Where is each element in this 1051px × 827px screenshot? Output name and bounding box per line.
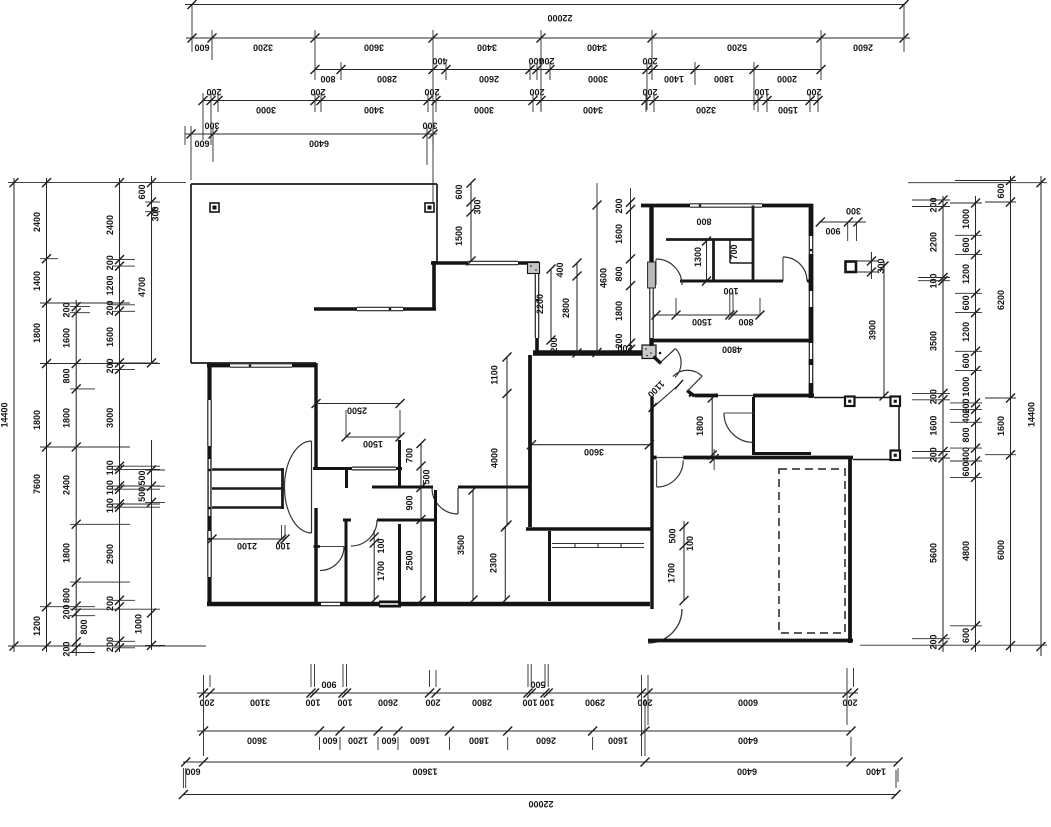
svg-text:100: 100 bbox=[376, 538, 386, 553]
wall left wing north bbox=[207, 364, 316, 367]
garage east wall bbox=[848, 458, 852, 644]
svg-text:400: 400 bbox=[432, 56, 447, 66]
svg-text:100: 100 bbox=[305, 698, 320, 708]
svg-text:1600: 1600 bbox=[614, 224, 624, 244]
dim 100/1700 room A bbox=[370, 530, 386, 605]
svg-text:700: 700 bbox=[729, 244, 739, 259]
dim row bottom B2 bbox=[197, 727, 856, 746]
svg-text:4800: 4800 bbox=[722, 345, 742, 355]
svg-text:1500: 1500 bbox=[454, 226, 464, 246]
vestibule east wall bbox=[752, 397, 755, 455]
svg-text:2600: 2600 bbox=[378, 698, 398, 708]
svg-text:6000: 6000 bbox=[996, 540, 1006, 560]
svg-text:100: 100 bbox=[522, 698, 537, 708]
svg-text:200: 200 bbox=[929, 634, 939, 649]
dim 3900 east bbox=[868, 261, 889, 401]
svg-text:2600: 2600 bbox=[536, 736, 556, 746]
porch column c bbox=[891, 451, 901, 461]
dim row bottom B4 total 22000 bbox=[179, 790, 901, 809]
hall south wall east bbox=[753, 394, 814, 398]
svg-text:6000: 6000 bbox=[738, 698, 758, 708]
svg-text:800: 800 bbox=[961, 427, 971, 442]
svg-text:2400: 2400 bbox=[105, 215, 115, 235]
svg-text:100: 100 bbox=[539, 698, 554, 708]
svg-text:100: 100 bbox=[105, 498, 115, 513]
dim col left L2 bbox=[32, 178, 51, 652]
svg-text:1400: 1400 bbox=[866, 767, 886, 777]
svg-text:1000: 1000 bbox=[961, 377, 971, 397]
svg-text:700: 700 bbox=[405, 448, 415, 463]
svg-text:1200: 1200 bbox=[348, 736, 368, 746]
svg-text:1500: 1500 bbox=[692, 317, 712, 327]
svg-text:2200: 2200 bbox=[535, 294, 545, 314]
svg-text:100: 100 bbox=[337, 698, 352, 708]
entry door arc east bbox=[673, 370, 702, 376]
svg-text:1600: 1600 bbox=[410, 736, 430, 746]
svg-text:400: 400 bbox=[961, 447, 971, 462]
dim 1800 vestibule bbox=[695, 394, 717, 460]
svg-text:600: 600 bbox=[454, 184, 464, 199]
svg-text:600: 600 bbox=[185, 767, 200, 777]
car space dashed bbox=[779, 469, 845, 633]
svg-text:2100: 2100 bbox=[237, 541, 257, 551]
wall central x316 upper bbox=[314, 363, 317, 469]
porch column b bbox=[891, 397, 901, 407]
wall x399 bbox=[398, 524, 401, 604]
svg-text:3400: 3400 bbox=[583, 105, 603, 115]
garage door arc west bbox=[648, 609, 682, 643]
svg-text:1000: 1000 bbox=[134, 614, 144, 634]
NE room door2 arc bbox=[783, 257, 807, 281]
svg-text:3600: 3600 bbox=[247, 736, 267, 746]
corridor room door leaf bbox=[457, 488, 459, 514]
svg-text:200: 200 bbox=[929, 389, 939, 404]
svg-text:200: 200 bbox=[549, 337, 559, 352]
svg-text:1800: 1800 bbox=[714, 74, 734, 84]
dim row bottom B1 bbox=[197, 680, 858, 708]
svg-text:2500: 2500 bbox=[405, 550, 415, 570]
svg-text:800: 800 bbox=[62, 588, 72, 603]
svg-text:600: 600 bbox=[322, 736, 337, 746]
svg-text:1800: 1800 bbox=[62, 543, 72, 563]
svg-text:300: 300 bbox=[846, 206, 861, 216]
svg-text:200: 200 bbox=[105, 358, 115, 373]
NE wing north wall bbox=[641, 204, 813, 207]
wall x346 bbox=[345, 519, 348, 605]
svg-text:2800: 2800 bbox=[472, 698, 492, 708]
dim col left L5 lower bbox=[79, 440, 156, 650]
NE wing west wall upper bbox=[649, 204, 653, 263]
dim col left L5 upper bbox=[137, 176, 161, 367]
svg-text:400: 400 bbox=[555, 262, 565, 277]
svg-text:5200: 5200 bbox=[727, 43, 747, 53]
svg-text:200: 200 bbox=[642, 87, 657, 97]
dim 300 porch column bbox=[855, 252, 886, 279]
svg-text:3400: 3400 bbox=[587, 43, 607, 53]
wall dark y353 bbox=[533, 350, 648, 355]
svg-text:1800: 1800 bbox=[62, 408, 72, 428]
entry corner block bbox=[642, 345, 656, 359]
porch column a bbox=[845, 397, 855, 407]
dim 2800 kitchen bbox=[555, 259, 582, 358]
svg-text:3000: 3000 bbox=[588, 74, 608, 84]
closet wall end bbox=[281, 468, 284, 509]
svg-text:7600: 7600 bbox=[32, 474, 42, 494]
terrace column left bbox=[210, 203, 219, 212]
wall kitchen x434 bbox=[432, 261, 436, 311]
dim 1100/4000 center bbox=[490, 353, 512, 530]
svg-text:1500: 1500 bbox=[363, 439, 383, 449]
svg-text:200: 200 bbox=[424, 87, 439, 97]
dim 2200 kitchen bbox=[535, 265, 556, 345]
svg-text:200: 200 bbox=[529, 87, 544, 97]
svg-text:200: 200 bbox=[539, 56, 554, 66]
extension lines bottom block bbox=[183, 664, 898, 788]
wall exterior south bbox=[207, 602, 650, 605]
courtyard corner block bbox=[528, 263, 540, 274]
door threshold south bbox=[379, 601, 401, 608]
svg-text:800: 800 bbox=[696, 217, 711, 227]
svg-text:1800: 1800 bbox=[32, 323, 42, 343]
svg-text:2800: 2800 bbox=[377, 74, 397, 84]
dim col right R3 bbox=[996, 176, 1015, 652]
NE shaft bbox=[730, 240, 752, 263]
svg-text:800: 800 bbox=[614, 266, 624, 281]
wall bedroom x549 bbox=[548, 531, 551, 601]
dim 1100 diagonal line bbox=[649, 380, 683, 412]
dim 2500 kitchen h bbox=[312, 399, 405, 416]
svg-text:100: 100 bbox=[105, 460, 115, 475]
extension lines left block bbox=[8, 183, 206, 653]
svg-text:200: 200 bbox=[806, 87, 821, 97]
wc stub wall bbox=[345, 468, 348, 488]
svg-text:200: 200 bbox=[206, 87, 221, 97]
svg-text:100: 100 bbox=[723, 286, 738, 296]
svg-text:1800: 1800 bbox=[695, 416, 705, 436]
svg-text:4000: 4000 bbox=[490, 448, 500, 468]
wall x435 bbox=[434, 490, 437, 604]
svg-text:13600: 13600 bbox=[412, 767, 437, 777]
door arc room B bbox=[320, 547, 344, 571]
hall south door sill bbox=[718, 395, 753, 397]
svg-text:600: 600 bbox=[961, 461, 971, 476]
wall living west bbox=[528, 355, 532, 527]
svg-text:1600: 1600 bbox=[62, 328, 72, 348]
svg-text:200: 200 bbox=[62, 641, 72, 656]
svg-text:3200: 3200 bbox=[253, 43, 273, 53]
svg-text:1200: 1200 bbox=[961, 264, 971, 284]
garage south wall bbox=[648, 639, 853, 643]
porch south edge bbox=[853, 459, 899, 461]
dim 4600 courtyard bbox=[593, 183, 631, 357]
dim 900/300 NE corner horizontal bbox=[816, 206, 866, 241]
svg-text:300: 300 bbox=[204, 121, 219, 131]
svg-text:1400: 1400 bbox=[664, 74, 684, 84]
dim col left L1 total 14400 bbox=[0, 178, 19, 652]
svg-text:600: 600 bbox=[961, 295, 971, 310]
svg-text:3600: 3600 bbox=[364, 43, 384, 53]
dim 700/500/900/2500 room B bbox=[405, 439, 432, 605]
vestibule south wall bbox=[754, 452, 812, 455]
wall y546 stub bbox=[314, 545, 321, 548]
entry jamb diagonal bbox=[654, 357, 662, 364]
NE wing south wall (hall north) bbox=[652, 339, 812, 343]
garage north wall bbox=[652, 456, 853, 460]
svg-text:3600: 3600 bbox=[584, 447, 604, 457]
svg-text:5600: 5600 bbox=[929, 543, 939, 563]
bathroom wall east bbox=[398, 440, 401, 488]
svg-text:3000: 3000 bbox=[256, 105, 276, 115]
porch east edge bbox=[898, 398, 900, 460]
court column bbox=[846, 262, 857, 273]
svg-text:500: 500 bbox=[530, 680, 545, 690]
entry door leaf west bbox=[660, 349, 675, 363]
NE partition x713 bbox=[712, 240, 715, 282]
dim col right R1 bbox=[929, 196, 948, 653]
garage north door arc bbox=[657, 460, 684, 487]
closet wall bottom bbox=[212, 506, 284, 508]
dim row top T2 bbox=[186, 34, 910, 53]
dim 200 pair labels bbox=[549, 337, 633, 353]
svg-text:1200: 1200 bbox=[32, 616, 42, 636]
NE partition x753 bbox=[752, 206, 755, 282]
svg-text:400: 400 bbox=[961, 408, 971, 423]
wall junction dots bbox=[208, 204, 851, 642]
svg-text:600: 600 bbox=[381, 736, 396, 746]
svg-text:600: 600 bbox=[137, 184, 147, 199]
hall door leaf bbox=[311, 441, 313, 533]
terrace column right bbox=[425, 203, 434, 212]
svg-text:1200: 1200 bbox=[105, 275, 115, 295]
svg-text:200: 200 bbox=[105, 637, 115, 652]
svg-text:1600: 1600 bbox=[105, 327, 115, 347]
wall y520 west stub bbox=[343, 519, 351, 522]
corridor room door arc bbox=[432, 488, 458, 514]
svg-text:3400: 3400 bbox=[364, 105, 384, 115]
svg-text:3900: 3900 bbox=[868, 320, 878, 340]
svg-text:4700: 4700 bbox=[137, 277, 147, 297]
svg-text:800: 800 bbox=[79, 619, 89, 634]
svg-text:3000: 3000 bbox=[474, 105, 494, 115]
svg-text:900: 900 bbox=[825, 226, 840, 236]
svg-text:1300: 1300 bbox=[693, 247, 703, 267]
NE wing west stipple block bbox=[648, 262, 656, 288]
wall y487 east part bbox=[458, 486, 531, 489]
svg-text:600: 600 bbox=[194, 43, 209, 53]
svg-text:2200: 2200 bbox=[929, 232, 939, 252]
garage west wall bbox=[650, 397, 653, 609]
svg-text:200: 200 bbox=[425, 698, 440, 708]
NE wing east wall bbox=[809, 204, 812, 398]
dim 3600 living h bbox=[527, 440, 654, 457]
svg-text:6400: 6400 bbox=[738, 736, 758, 746]
svg-text:4600: 4600 bbox=[599, 268, 609, 288]
wall kitchen north y263 bbox=[431, 261, 539, 264]
svg-text:200: 200 bbox=[614, 198, 624, 213]
svg-text:900: 900 bbox=[321, 680, 336, 690]
svg-text:6400: 6400 bbox=[309, 139, 329, 149]
svg-text:200: 200 bbox=[842, 698, 857, 708]
svg-text:1200: 1200 bbox=[961, 322, 971, 342]
extension lines right block bbox=[860, 181, 1047, 646]
svg-text:2600: 2600 bbox=[479, 74, 499, 84]
svg-text:2900: 2900 bbox=[105, 544, 115, 564]
svg-text:1000: 1000 bbox=[961, 209, 971, 229]
svg-text:900: 900 bbox=[405, 495, 415, 510]
svg-text:800: 800 bbox=[738, 317, 753, 327]
entry door leaf east bbox=[688, 376, 703, 391]
svg-text:3200: 3200 bbox=[696, 105, 716, 115]
svg-text:1600: 1600 bbox=[608, 736, 628, 746]
svg-text:100: 100 bbox=[105, 480, 115, 495]
wall kitchen y309 bbox=[314, 307, 436, 310]
svg-text:3100: 3100 bbox=[250, 698, 270, 708]
NE partition shelf y239 bbox=[666, 238, 752, 241]
svg-text:14400: 14400 bbox=[1027, 402, 1037, 427]
svg-text:300: 300 bbox=[422, 121, 437, 131]
dim 1300 line bbox=[702, 237, 711, 286]
vestibule door arc bbox=[724, 413, 754, 443]
svg-text:200: 200 bbox=[310, 87, 325, 97]
svg-text:6200: 6200 bbox=[996, 290, 1006, 310]
svg-text:22000: 22000 bbox=[547, 13, 572, 23]
NE room door1 arc bbox=[656, 259, 682, 285]
svg-text:22000: 22000 bbox=[528, 799, 553, 809]
svg-text:4800: 4800 bbox=[961, 541, 971, 561]
dim 1500 kitchen h bbox=[342, 410, 405, 449]
wall y520 east part bbox=[377, 519, 437, 522]
svg-text:500: 500 bbox=[137, 470, 147, 485]
dim 2100/100 bedroom bbox=[208, 525, 291, 551]
svg-text:3500: 3500 bbox=[929, 331, 939, 351]
svg-text:200: 200 bbox=[642, 56, 657, 66]
wall living south y529 bbox=[526, 527, 652, 530]
svg-text:600: 600 bbox=[996, 183, 1006, 198]
dim ext x714 bbox=[710, 449, 719, 470]
svg-text:100: 100 bbox=[275, 541, 290, 551]
extension lines top block bbox=[185, 5, 904, 206]
dim col left L3 bbox=[62, 300, 81, 657]
svg-text:1400: 1400 bbox=[32, 271, 42, 291]
svg-text:1800: 1800 bbox=[32, 410, 42, 430]
svg-text:6400: 6400 bbox=[737, 767, 757, 777]
bathroom wall y468 bbox=[313, 467, 402, 470]
svg-text:600: 600 bbox=[194, 139, 209, 149]
svg-text:200: 200 bbox=[617, 343, 632, 353]
hall door arc large bbox=[285, 441, 312, 533]
svg-text:3400: 3400 bbox=[477, 43, 497, 53]
svg-text:3500: 3500 bbox=[456, 535, 466, 555]
svg-text:1700: 1700 bbox=[667, 563, 677, 583]
wall left wing west bbox=[208, 364, 211, 607]
dim 1500/800/100 NE rooms bbox=[652, 286, 765, 327]
NE rooms partition south y281 bbox=[680, 280, 811, 283]
svg-text:1600: 1600 bbox=[929, 416, 939, 436]
NE wing west block lower bbox=[649, 338, 653, 346]
svg-text:2500: 2500 bbox=[347, 406, 367, 416]
svg-text:600: 600 bbox=[961, 353, 971, 368]
dim col left L4 bbox=[105, 178, 124, 652]
door arc room A bbox=[351, 520, 377, 546]
svg-text:2400: 2400 bbox=[32, 212, 42, 232]
svg-text:2300: 2300 bbox=[489, 553, 499, 573]
dim row top T5 bbox=[185, 121, 438, 149]
dim column courtyard 200/1600/800/1800/200 bbox=[614, 198, 635, 354]
dim 500/100/1700 garage side bbox=[667, 521, 696, 605]
svg-text:800: 800 bbox=[320, 74, 335, 84]
NE wing west window bbox=[650, 288, 653, 338]
dim col right R2 bbox=[961, 196, 980, 652]
svg-text:14400: 14400 bbox=[0, 402, 10, 427]
dim 3500 corridor bbox=[456, 486, 478, 605]
svg-text:300: 300 bbox=[151, 206, 161, 221]
svg-text:1800: 1800 bbox=[614, 301, 624, 321]
closet wall middle bbox=[212, 487, 284, 489]
svg-text:2900: 2900 bbox=[585, 698, 605, 708]
entry jog diagonal bbox=[687, 391, 695, 397]
svg-text:2800: 2800 bbox=[561, 298, 571, 318]
wall courtyard west x537 bbox=[535, 262, 538, 355]
dim row top T1 total 22000 bbox=[185, 0, 909, 23]
svg-text:800: 800 bbox=[62, 368, 72, 383]
dim 2300 corridor bbox=[489, 523, 510, 605]
svg-text:3000: 3000 bbox=[105, 408, 115, 428]
svg-text:100: 100 bbox=[685, 536, 695, 551]
svg-text:1100: 1100 bbox=[490, 365, 500, 385]
svg-text:500: 500 bbox=[668, 528, 678, 543]
wall y487 west part bbox=[372, 486, 433, 489]
dim 600/300/1500 court west bbox=[454, 179, 483, 266]
entry door arc west bbox=[675, 349, 681, 378]
dim col right R4 total 14400 bbox=[1027, 176, 1046, 656]
svg-text:2000: 2000 bbox=[777, 74, 797, 84]
svg-text:1700: 1700 bbox=[376, 561, 386, 581]
svg-text:2600: 2600 bbox=[853, 43, 873, 53]
dim row top T4 bbox=[199, 87, 823, 115]
svg-text:600: 600 bbox=[961, 628, 971, 643]
dim row top T3 bbox=[311, 56, 826, 84]
svg-text:200: 200 bbox=[62, 302, 72, 317]
svg-text:500: 500 bbox=[422, 469, 432, 484]
svg-text:1800: 1800 bbox=[469, 736, 489, 746]
svg-text:600: 600 bbox=[961, 237, 971, 252]
hall south wall west bbox=[695, 394, 719, 398]
wardrobe bbox=[552, 544, 644, 548]
wall central x316 lower bbox=[314, 508, 317, 604]
closet wall top bbox=[212, 468, 284, 470]
svg-text:2400: 2400 bbox=[62, 475, 72, 495]
svg-text:300: 300 bbox=[473, 199, 483, 214]
terrace outline bbox=[191, 184, 437, 363]
svg-text:1600: 1600 bbox=[996, 416, 1006, 436]
svg-text:200: 200 bbox=[199, 698, 214, 708]
porch north edge bbox=[814, 397, 899, 399]
svg-text:1500: 1500 bbox=[778, 105, 798, 115]
dim row bottom B3 bbox=[181, 758, 902, 777]
svg-text:200: 200 bbox=[105, 255, 115, 270]
svg-text:200: 200 bbox=[929, 447, 939, 462]
